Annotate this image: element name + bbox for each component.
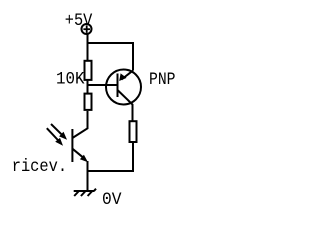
wire bottom rail <box>88 143 134 172</box>
wire R2 to phototransistor collector <box>72 111 87 138</box>
light arrow 2 <box>47 128 59 141</box>
resistor R2 body <box>85 94 92 110</box>
resistor R3 body <box>130 121 137 142</box>
wire base of PNP <box>88 84 118 86</box>
transistor Q1 emitter lead <box>122 71 134 80</box>
node +5V terminal <box>82 24 92 34</box>
resistor R1 10K body <box>85 61 92 80</box>
transistor Q1 collector lead <box>118 90 133 121</box>
transistor Q2 phototransistor base bar <box>71 129 73 162</box>
wire R1 to R2 <box>87 80 89 94</box>
transistor Q1 PNP circle <box>106 70 141 105</box>
svg-text:10K: 10K <box>56 70 85 90</box>
transistor Q1 emitter arrowhead (PNP, points to base) <box>119 73 126 81</box>
svg-text:PNP: PNP <box>149 70 176 90</box>
ground <box>74 189 96 196</box>
transistor Q1 base bar <box>117 74 119 98</box>
transistor Q2 emitter arrowhead <box>80 155 88 163</box>
light arrow 1 <box>51 124 63 135</box>
wire top rail to right <box>88 43 134 71</box>
svg-text:0V: 0V <box>102 190 122 210</box>
transistor Q2 emitter lead <box>72 149 83 158</box>
svg-text:ricev.: ricev. <box>12 157 67 177</box>
wire emitter to ground <box>87 161 89 191</box>
wire from +5V terminal down <box>87 34 89 60</box>
svg-text:+5V: +5V <box>65 11 93 31</box>
